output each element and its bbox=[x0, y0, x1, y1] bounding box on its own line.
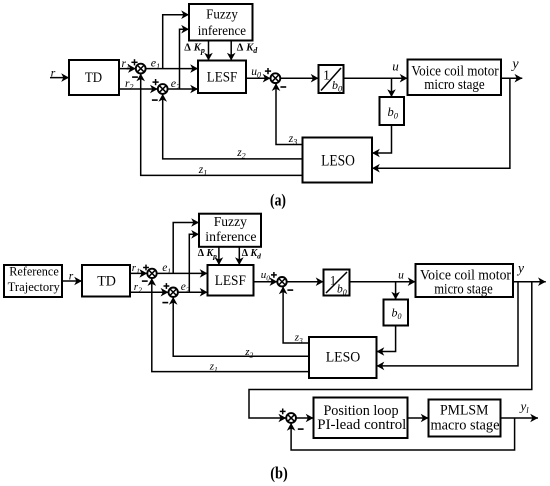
wire e1 S1 to LESF (b) bbox=[157, 269, 208, 278]
svg-text:u: u bbox=[398, 269, 404, 281]
wire y feedback to LESO (b) bbox=[377, 282, 519, 371]
wire e2 branch to Fuzzy (a) bbox=[180, 25, 190, 89]
svg-text:r: r bbox=[69, 271, 74, 283]
svg-text:(a): (a) bbox=[270, 190, 286, 209]
wire r1 TD to S1 (a) bbox=[119, 64, 136, 73]
label u (a) bbox=[392, 59, 399, 74]
label z2 (a) bbox=[236, 147, 245, 161]
summing junction S1 (b) bbox=[147, 269, 156, 278]
label y (a) bbox=[510, 57, 519, 72]
svg-text:u: u bbox=[392, 59, 399, 74]
block Position loop PI-lead control (b) bbox=[314, 398, 408, 439]
svg-text:(b): (b) bbox=[270, 463, 288, 482]
caption (b) bbox=[270, 463, 288, 482]
block Voice coil motor micro stage (b) bbox=[416, 264, 514, 298]
wire r2 TD to S2 (b) bbox=[130, 288, 168, 297]
wire yl output (b) bbox=[501, 414, 539, 423]
wire z3 LESO to S3 (a) bbox=[272, 83, 303, 144]
svg-text:LESF: LESF bbox=[215, 273, 246, 289]
summing junction S2 (a) bbox=[158, 84, 168, 94]
wire S3 to 1/b0 (a) bbox=[280, 74, 318, 83]
label plus S1 (a) bbox=[131, 59, 137, 65]
wire u branch to b0 (b) bbox=[391, 282, 400, 300]
label minus S2 (b) bbox=[162, 302, 168, 304]
wire u0 LESF to S3 (a) bbox=[246, 74, 271, 83]
label delta Kd (b) bbox=[242, 248, 261, 260]
label minus S3 (a) bbox=[280, 86, 286, 88]
label minus S1 (b) bbox=[142, 280, 148, 282]
label u0 (b) bbox=[261, 269, 271, 283]
wire e1 branch to Fuzzy (a) bbox=[163, 10, 189, 68]
block LESF (b) bbox=[208, 265, 254, 296]
label r1 (a) bbox=[122, 58, 130, 72]
label minus S3 (b) bbox=[287, 289, 293, 291]
block b0 (a) bbox=[380, 97, 405, 125]
svg-text:inference: inference bbox=[198, 24, 246, 39]
summing junction S1 (a) bbox=[136, 64, 146, 74]
wire e2 branch to Fuzzy (b) bbox=[189, 230, 199, 292]
svg-text:Δ: Δ bbox=[237, 42, 244, 53]
label e2 (a) bbox=[171, 76, 180, 92]
summing junction S4 (b) bbox=[286, 413, 296, 423]
label y (b) bbox=[516, 261, 524, 276]
wire y feedback to S4 (b) bbox=[249, 282, 532, 423]
summing junction S2 (b) bbox=[169, 288, 178, 297]
svg-text:Δ: Δ bbox=[198, 248, 205, 259]
label z3 (b) bbox=[294, 332, 303, 346]
label z3 (a) bbox=[288, 133, 297, 147]
block Voice coil motor micro stage (a) bbox=[408, 60, 502, 96]
wire r2 TD to S2 (a) bbox=[119, 85, 158, 94]
svg-text:1: 1 bbox=[330, 274, 336, 288]
wire r input (a) bbox=[50, 73, 69, 82]
block PMLSM macro stage (b) bbox=[429, 400, 501, 437]
wire S4 to Position loop (b) bbox=[296, 414, 314, 423]
svg-text:Trajectory: Trajectory bbox=[8, 280, 61, 294]
label r (a) bbox=[51, 66, 56, 80]
svg-text:TD: TD bbox=[85, 70, 102, 86]
wire u branch to b0 (a) bbox=[387, 78, 396, 97]
wire e1 S1 to LESF (a) bbox=[146, 64, 198, 73]
block TD (a) bbox=[69, 60, 119, 95]
block Reference Trajectory (b) bbox=[4, 265, 62, 298]
svg-text:PMLSM: PMLSM bbox=[440, 402, 489, 418]
wire delta Kp Fuzzy to LESF (a) bbox=[204, 41, 213, 61]
label r2 (a) bbox=[125, 78, 133, 92]
svg-text:LESO: LESO bbox=[326, 350, 361, 366]
svg-text:LESF: LESF bbox=[207, 69, 238, 85]
label minus S1 (a) bbox=[132, 76, 138, 78]
label z1 (b) bbox=[209, 360, 218, 374]
svg-text:Fuzzy: Fuzzy bbox=[214, 215, 247, 230]
svg-text:micro stage: micro stage bbox=[424, 77, 485, 93]
block 1/b0 (b) bbox=[324, 270, 350, 297]
label plus S1 (b) bbox=[143, 265, 149, 271]
summing junction S3 (b) bbox=[277, 277, 286, 286]
label plus S2 (a) bbox=[153, 79, 159, 85]
svg-text:Δ: Δ bbox=[184, 42, 191, 53]
wire e2 S2 to LESF (a) bbox=[168, 85, 198, 94]
label delta Kp (a) bbox=[184, 42, 205, 55]
wire b0 to LESO (a) bbox=[372, 125, 392, 157]
label u (b) bbox=[398, 269, 404, 281]
label e2 (b) bbox=[181, 281, 190, 295]
svg-text:TD: TD bbox=[97, 274, 116, 290]
label z2 (b) bbox=[244, 346, 253, 360]
label plus S3 (b) bbox=[271, 272, 277, 278]
label minus S2 (a) bbox=[152, 99, 158, 101]
label e1 (a) bbox=[151, 56, 160, 72]
block Fuzzy inference (a) bbox=[189, 4, 253, 41]
wire delta Kp Fuzzy to LESF (b) bbox=[215, 247, 224, 265]
block 1/b0 (a) bbox=[319, 65, 344, 94]
caption (a) bbox=[270, 190, 286, 209]
label e1 (b) bbox=[162, 262, 171, 276]
svg-text:inference: inference bbox=[205, 230, 256, 245]
wire b0 to LESO (b) bbox=[377, 326, 396, 356]
svg-text:r: r bbox=[51, 66, 56, 80]
svg-text:y: y bbox=[516, 261, 524, 276]
wire r1 TD to S1 (b) bbox=[130, 269, 147, 278]
block LESO (a) bbox=[303, 138, 373, 183]
wire y output (b) bbox=[513, 277, 546, 286]
block LESF (a) bbox=[198, 61, 246, 94]
label r1 (b) bbox=[132, 262, 140, 276]
svg-text:PI-lead control: PI-lead control bbox=[317, 417, 406, 433]
svg-text:1: 1 bbox=[323, 68, 330, 83]
wire z2 LESO to S2 (b) bbox=[169, 297, 309, 356]
wire r Reference to TD (b) bbox=[62, 277, 82, 286]
svg-text:macro stage: macro stage bbox=[431, 418, 500, 434]
svg-text:LESO: LESO bbox=[321, 153, 355, 170]
wire z1 LESO to S1 (a) bbox=[136, 74, 302, 176]
wire e2 S2 to LESF (b) bbox=[178, 288, 208, 297]
wire e1 branch to Fuzzy (b) bbox=[173, 218, 199, 273]
svg-text:Fuzzy: Fuzzy bbox=[206, 8, 238, 23]
wire S3 to 1/b0 (b) bbox=[287, 277, 324, 286]
svg-text:Reference: Reference bbox=[9, 265, 59, 279]
wire delta Kd Fuzzy to LESF (a) bbox=[227, 41, 236, 61]
wire y feedback to LESO (a) bbox=[372, 78, 510, 172]
summing junction S3 (a) bbox=[271, 73, 281, 83]
wire y output (a) bbox=[501, 74, 522, 83]
label r2 (b) bbox=[134, 281, 142, 295]
label plus S4 (b) bbox=[280, 409, 286, 415]
block TD (b) bbox=[82, 265, 130, 297]
wire delta Kd Fuzzy to LESF (b) bbox=[235, 247, 244, 265]
wire u0 LESF to S3 (b) bbox=[254, 277, 278, 286]
label plus S2 (b) bbox=[164, 283, 170, 289]
label z1 (a) bbox=[198, 164, 207, 178]
svg-text:micro stage: micro stage bbox=[434, 282, 493, 298]
wire yl feedback to S4 (b) bbox=[287, 418, 515, 450]
label yl (b) bbox=[519, 399, 530, 416]
wire 1/b0 to Voice coil motor (a) bbox=[344, 74, 408, 83]
label r (b) bbox=[69, 271, 74, 283]
wire z3 LESO to S3 (b) bbox=[279, 286, 309, 343]
label minus S4 (b) bbox=[298, 428, 304, 430]
wire z1 LESO to S1 (b) bbox=[148, 278, 310, 372]
block LESO (b) bbox=[309, 337, 377, 378]
label delta Kp (b) bbox=[198, 248, 217, 260]
wire z2 LESO to S2 (a) bbox=[158, 94, 302, 159]
block Fuzzy inference (b) bbox=[199, 214, 261, 247]
label plus S3 (a) bbox=[265, 68, 271, 74]
label delta Kd (a) bbox=[237, 42, 259, 55]
block b0 (b) bbox=[384, 300, 409, 326]
label u0 (a) bbox=[251, 66, 261, 80]
wire 1/b0 to Voice coil motor (b) bbox=[350, 277, 416, 286]
svg-text:Δ: Δ bbox=[242, 248, 249, 259]
svg-text:y: y bbox=[510, 57, 519, 72]
wire Position loop to PMLSM (b) bbox=[408, 414, 429, 423]
